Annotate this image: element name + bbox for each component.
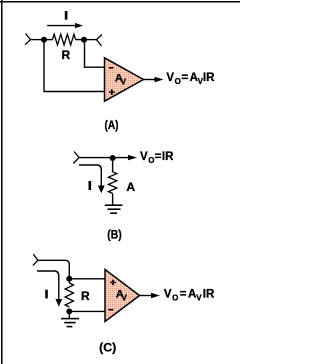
op-amp U1 AV (circuit A) <box>105 58 144 101</box>
current arrow I curved (circuit B) <box>79 165 105 193</box>
resistor R (circuit A) <box>53 34 76 45</box>
wire: node down to resistor (circuit B) <box>112 158 114 172</box>
node: left junction (circuit A) <box>41 37 47 43</box>
label AV gain (circuit C) <box>116 288 128 302</box>
svg-text:(C): (C) <box>99 341 116 355</box>
current arrow I (circuit A) <box>47 23 83 28</box>
wire: bottom node to ground (circuit C) <box>68 311 70 318</box>
output arrow (circuit A) <box>155 77 164 82</box>
wire: bottom node to inverting input (circuit C) <box>69 310 105 312</box>
plus sign: non-inverting input (circuit A) <box>109 89 115 95</box>
label AV gain (circuit A) <box>115 72 127 86</box>
ground (circuit B) <box>105 204 123 214</box>
wire: right node down to inverting input (circuit A) <box>85 41 105 67</box>
input terminal left (circuit A) <box>25 34 31 45</box>
svg-text:R: R <box>62 48 71 62</box>
input terminal right (circuit A) <box>97 35 103 47</box>
node: top junction (circuit C) <box>66 276 72 282</box>
node: bottom junction (circuit C) <box>66 308 72 314</box>
svg-text:(B): (B) <box>107 227 121 241</box>
svg-text:A: A <box>126 180 135 194</box>
plus sign: non-inverting input (circuit C) <box>110 280 116 286</box>
resistor R (circuit C) <box>65 283 73 307</box>
resistor A (circuit B) <box>108 172 116 194</box>
svg-text:R: R <box>81 289 90 303</box>
label I (circuit C) <box>45 290 48 299</box>
output arrow (circuit B) <box>128 155 137 160</box>
label I (current, circuit A) <box>65 11 68 20</box>
wire: resistor to ground (circuit B) <box>112 193 114 205</box>
svg-text:VO=AVIR: VO=AVIR <box>166 72 215 86</box>
svg-text:VO=AVIR: VO=AVIR <box>164 288 215 302</box>
node: right junction (circuit A) <box>81 37 87 43</box>
wire: top node to resistor (circuit C) <box>68 279 70 283</box>
node: junction (circuit B) <box>110 155 116 161</box>
input terminal (circuit C) <box>33 254 38 265</box>
wire: resistor to right node (circuit A) <box>76 39 85 41</box>
wire: node to right terminal (circuit A) <box>84 39 97 41</box>
wire: left terminal to node (circuit A) <box>31 39 45 41</box>
output wire (circuit A) <box>144 79 156 81</box>
wire: terminal right and down to top node (circuit C) <box>38 260 69 276</box>
wire: left node down and right to non-inverting input (circuit A) <box>44 41 105 92</box>
op-amp U2 AV (circuit C) <box>105 270 140 322</box>
label I (circuit B) <box>89 181 92 190</box>
input terminal (circuit B) <box>74 152 80 164</box>
minus sign: inverting input (circuit C) <box>108 309 113 311</box>
minus sign: inverting input (circuit A) <box>109 67 114 69</box>
output arrow (circuit C) <box>151 293 160 298</box>
svg-text:V: V <box>122 293 128 302</box>
svg-text:(A): (A) <box>105 118 119 132</box>
output wire (circuit B) <box>113 157 129 159</box>
output wire (circuit C) <box>140 295 152 297</box>
svg-text:VO=IR: VO=IR <box>140 151 174 165</box>
wire: node to resistor (circuit A) <box>44 39 53 41</box>
ground (circuit C) <box>61 318 79 328</box>
svg-text:V: V <box>121 77 127 86</box>
wire: terminal to node (circuit B) <box>79 157 113 159</box>
wire: top node to non-inverting input (circuit C) <box>69 278 105 280</box>
current arrow I curved (circuit C) <box>37 271 62 307</box>
